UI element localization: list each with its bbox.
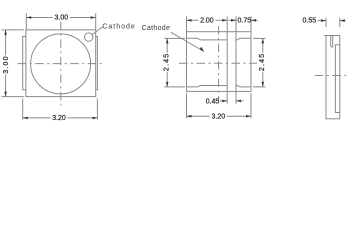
svg-text:3.00: 3.00 [3, 55, 10, 73]
left tab [23, 36, 26, 89]
left dim ext lines [2, 29, 24, 31]
svg-text:Cathode: Cathode [142, 25, 171, 32]
top notch [331, 36, 333, 47]
vertical centerline [60, 22, 62, 106]
side centerline [315, 75, 348, 77]
middle cathode leader arrowhead [200, 47, 204, 52]
0.75 arrows (outside) [231, 19, 236, 22]
right pad top edge [236, 38, 251, 40]
dim line 2.00 [187, 19, 228, 21]
svg-text:0.75: 0.75 [237, 18, 251, 25]
top dim ext left [186, 16, 188, 31]
text 0.75 [237, 16, 251, 24]
text 3.20 middle [210, 112, 227, 120]
2.45 right ext lines [253, 37, 265, 39]
text 3.20 bottom-left [51, 114, 68, 122]
pad gap right line + ext [235, 17, 237, 104]
pad gap left line + ext [226, 17, 228, 104]
cathode leader middle view [171, 32, 204, 51]
middle horizontal centerline [179, 62, 257, 64]
outer rect [326, 36, 340, 119]
2.45 left ext lines [164, 37, 185, 39]
0.45 arrows (outside) [222, 100, 227, 103]
body square [26, 30, 96, 97]
top dim ext lines [25, 13, 27, 30]
text 2.45 left (rotated) [162, 53, 170, 72]
bottom dim line 3.20 [187, 115, 252, 117]
text 3.00 left (rotated) [1, 55, 9, 74]
top dim line 3.00 [26, 17, 95, 19]
top 3.00 arrows [26, 16, 31, 19]
svg-text:3.20: 3.20 [52, 115, 66, 122]
cathode mark circle [85, 33, 93, 41]
bottom dim line 3.20 [23, 117, 98, 119]
0.55 ext lines [325, 18, 327, 27]
2.45 left arrows [166, 38, 169, 43]
text 2.00 [198, 16, 215, 24]
right tab [96, 36, 98, 89]
2.45 right arrows [262, 38, 265, 43]
text 3.00 top [53, 13, 70, 21]
cathode leader left view [92, 27, 102, 35]
text 2.45 right (rotated) [258, 53, 266, 72]
dimension texts with knockouts [1, 13, 316, 122]
2.00 arrows [187, 19, 192, 22]
0.55 arrow tails [318, 20, 327, 22]
svg-text:Cathode: Cathode [102, 23, 135, 30]
horizontal centerline [18, 63, 104, 65]
bottom 3.20 arrows [23, 117, 28, 120]
svg-text:2.45: 2.45 [163, 53, 170, 71]
svg-text:3.20: 3.20 [211, 113, 225, 120]
left 3.00 arrows [4, 30, 7, 35]
middle vertical centerline [218, 26, 220, 100]
top dim ext right [250, 16, 252, 31]
svg-text:2.00: 2.00 [200, 18, 214, 25]
middle 3.20 arrows [187, 115, 192, 118]
0.55 arrows (outside) [321, 19, 326, 22]
2.45 left dim line [166, 38, 168, 87]
0.45 arrow tails [220, 100, 228, 102]
right pad bottom edge [236, 86, 251, 87]
dim 0.75 segments [229, 19, 236, 21]
2.45 right dim line [262, 38, 264, 87]
svg-text:0.55: 0.55 [302, 18, 316, 25]
left pad top edge [187, 38, 228, 40]
bottom dim ext lines [186, 93, 188, 118]
svg-text:0.45: 0.45 [206, 98, 220, 105]
left pad bottom edge [187, 86, 228, 87]
left dim line 3.00 vertical [5, 30, 7, 97]
outer rect [187, 32, 252, 92]
bottom dim ext lines [22, 99, 24, 120]
top edge overhang [324, 35, 326, 37]
arrowheads [4, 16, 345, 119]
inner contour [335, 45, 339, 113]
svg-text:2.45: 2.45 [259, 53, 266, 71]
svg-text:3.00: 3.00 [54, 15, 68, 22]
lens circle [31, 34, 91, 94]
